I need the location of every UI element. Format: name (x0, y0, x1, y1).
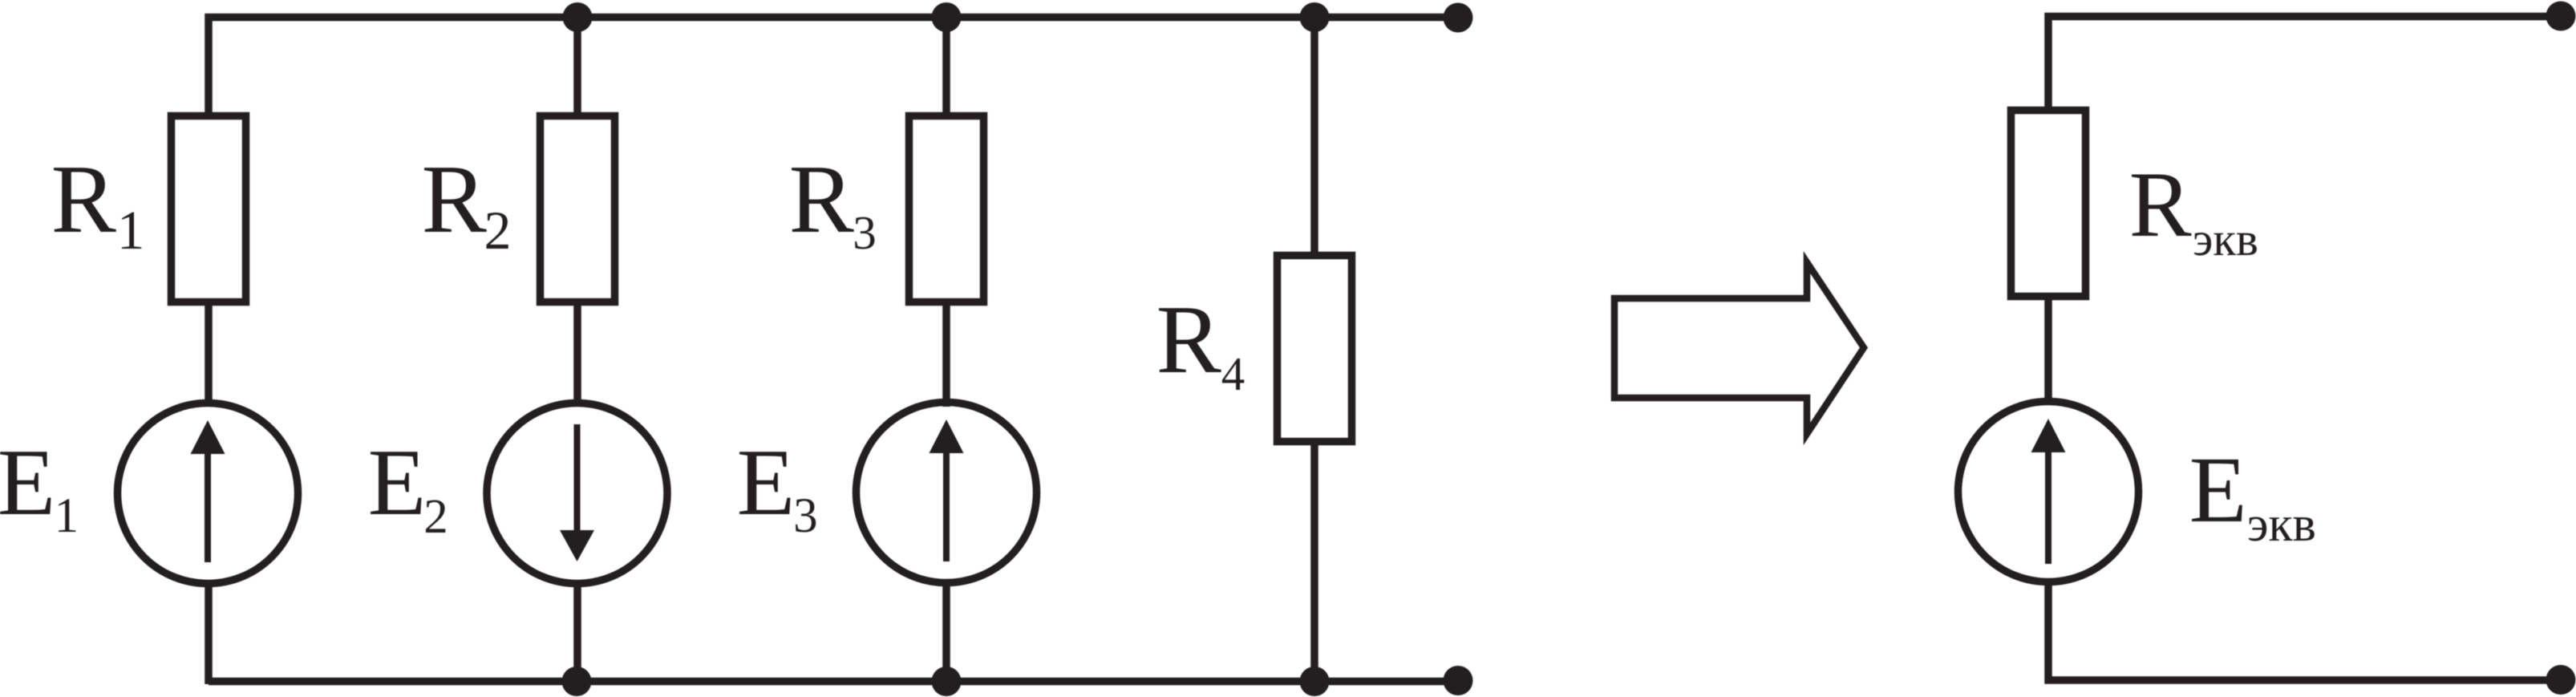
junction dot bottom branch2 (562, 667, 592, 696)
wire branch3 bottom (942, 580, 950, 684)
svg-text:1: 1 (117, 200, 145, 261)
terminal dot top left circuit (1444, 3, 1473, 33)
big equivalence arrow (1614, 262, 1864, 434)
arrow E1 shaft (205, 451, 211, 562)
resistor R2 (541, 116, 615, 302)
junction dot top branch2 (563, 2, 593, 32)
resistor R4 (1278, 256, 1352, 442)
svg-text:E: E (368, 429, 427, 535)
resistor R3 (909, 116, 984, 302)
terminal dot bottom right circuit (2546, 665, 2576, 695)
source Eekv circle (1958, 402, 2139, 582)
svg-text:E: E (0, 429, 55, 535)
junction dot bottom branch4 (1300, 667, 1330, 696)
wire branch3 top (942, 18, 950, 116)
terminal dot bottom left circuit (1444, 666, 1473, 695)
wire branch1 source to bottom rail (205, 580, 213, 684)
resistor Rekv (2011, 111, 2086, 297)
junction dot top branch4 (1300, 2, 1330, 32)
svg-text:2: 2 (484, 200, 512, 261)
source E3 circle (857, 403, 1037, 583)
svg-text:R: R (789, 145, 855, 253)
svg-text:R: R (1156, 286, 1222, 394)
wire right circuit top (2048, 17, 2561, 114)
wire right circuit resistor to source (2044, 298, 2052, 405)
svg-text:экв: экв (2247, 497, 2316, 552)
arrow E2 head (560, 530, 594, 561)
svg-text:E: E (2189, 437, 2247, 542)
arrow Eekv shaft (2045, 449, 2051, 564)
svg-text:R: R (51, 145, 117, 253)
svg-text:E: E (737, 429, 796, 535)
wire branch2 bottom (573, 580, 581, 684)
svg-text:R: R (422, 145, 488, 253)
arrow E1 head (191, 420, 225, 454)
junction dot top branch3 (932, 2, 962, 32)
wire branch1 resistor to source (205, 302, 213, 407)
wire branch4 bottom (1310, 439, 1318, 682)
resistor R1 (172, 116, 246, 302)
svg-text:4: 4 (1221, 347, 1245, 400)
wire branch2 mid (573, 302, 581, 407)
arrow E3 head (930, 419, 964, 453)
svg-text:экв: экв (2193, 213, 2258, 265)
svg-text:3: 3 (853, 206, 877, 259)
wire bottom rail left circuit (209, 678, 1458, 686)
arrow E3 shaft (943, 450, 950, 561)
terminal dot top right circuit (2546, 2, 2576, 31)
arrow E2 shaft (574, 424, 581, 536)
arrow Eekv head (2031, 419, 2066, 452)
wire branch2 top (573, 18, 581, 116)
svg-text:2: 2 (423, 490, 448, 544)
wire branch4 top (1310, 18, 1318, 259)
junction dot bottom branch3 (932, 667, 962, 696)
wire right circuit source to bottom (2048, 578, 2561, 680)
source E2 circle (487, 403, 667, 584)
wire top rail left circuit (209, 18, 1458, 116)
svg-text:3: 3 (793, 489, 818, 543)
svg-text:R: R (2129, 153, 2192, 257)
source E1 circle (118, 403, 298, 584)
svg-text:1: 1 (55, 489, 79, 543)
wire branch3 mid (942, 302, 950, 407)
